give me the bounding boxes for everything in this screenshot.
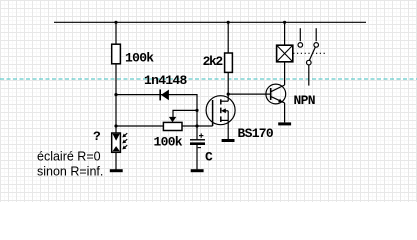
svg-text:BS170: BS170 [238, 126, 274, 141]
svg-text:1n4148: 1n4148 [144, 73, 188, 88]
svg-text:éclairé R=0: éclairé R=0 [37, 149, 101, 163]
svg-text:100k: 100k [154, 135, 183, 150]
svg-text:sinon R=inf.: sinon R=inf. [37, 164, 103, 178]
svg-text:NPN: NPN [294, 93, 315, 108]
svg-text:?: ? [93, 129, 101, 144]
svg-text:2k2: 2k2 [203, 54, 224, 69]
svg-text:C: C [205, 150, 213, 165]
svg-text:100k: 100k [125, 50, 154, 65]
